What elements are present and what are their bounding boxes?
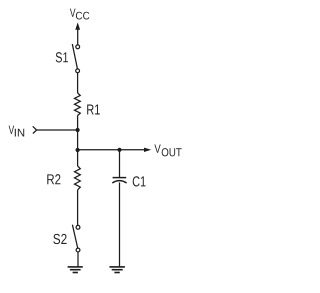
power VCC arrow [75, 22, 80, 44]
ground (right) [109, 267, 125, 273]
wire VOUT output [120, 148, 152, 152]
wire node C to C1 [119, 150, 121, 178]
node C junction (C1 tap) [117, 148, 121, 152]
label VCC [70, 9, 90, 20]
switch S1 bottom contact [76, 69, 80, 73]
switch S1 top contact [76, 45, 80, 49]
label C1 [133, 176, 146, 186]
switch S1 lever [72, 44, 77, 69]
switch S2 top contact [76, 225, 80, 229]
ground (left) [68, 267, 83, 273]
wire C1 to ground [119, 182, 121, 267]
switch S2 lever [72, 225, 77, 248]
node B junction (VOUT) [76, 148, 80, 152]
resistor R1 [75, 93, 81, 116]
resistor R2 [75, 166, 81, 190]
label R2 [47, 174, 60, 184]
wire R1 to node A [77, 116, 79, 131]
switch S2 bottom contact [76, 248, 80, 252]
wire S1 to R1 [77, 73, 79, 93]
label VIN [9, 126, 25, 137]
node A junction (VIN) [76, 128, 80, 132]
wire R2 to S2 [77, 190, 79, 226]
label S2 [53, 234, 66, 244]
port VIN chevron [33, 126, 37, 133]
label R1 [87, 105, 100, 115]
wire S2 to ground [77, 252, 79, 267]
label VOUT [154, 145, 181, 157]
label S1 [56, 52, 68, 62]
wire node A to node B [77, 130, 79, 150]
capacitor C1 [112, 178, 126, 183]
wire node B to R2 [77, 150, 79, 166]
wire VIN input [37, 129, 78, 131]
wire node B to node C [78, 149, 120, 151]
